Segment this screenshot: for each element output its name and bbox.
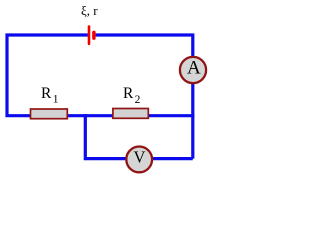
wire: top-left + left vertical + middle horizontal — [7, 35, 194, 116]
svg-text:A: A — [187, 58, 201, 79]
svg-text:2: 2 — [135, 94, 141, 106]
svg-text:ξ, r: ξ, r — [81, 3, 98, 18]
voltmeter V — [126, 147, 152, 173]
resistor R1 — [31, 109, 68, 119]
svg-text:1: 1 — [53, 93, 59, 105]
svg-text:R: R — [123, 85, 134, 102]
svg-text:V: V — [134, 147, 146, 166]
wire: top-right + right vertical — [96, 35, 193, 159]
wire: drop from node between R1 and R2 + bottom horizontal — [85, 114, 193, 159]
battery cell: long plate — [88, 27, 91, 44]
svg-text:R: R — [41, 85, 52, 102]
battery cell: short plate — [92, 32, 96, 38]
ammeter A — [180, 57, 206, 83]
resistor R2 — [113, 109, 148, 119]
